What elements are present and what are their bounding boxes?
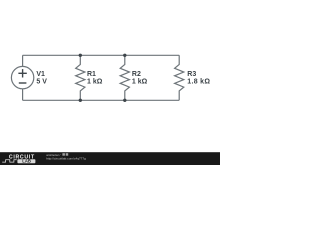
svg-text:V1: V1	[36, 71, 45, 78]
svg-text:http://circuitlab.com/c4q777g: http://circuitlab.com/c4q777g	[46, 157, 86, 161]
svg-text:R3: R3	[187, 71, 196, 78]
svg-text:R2: R2	[132, 71, 141, 78]
svg-text:1.8 kΩ: 1.8 kΩ	[187, 79, 210, 86]
svg-text:LAB: LAB	[22, 159, 31, 164]
svg-text:5 V: 5 V	[36, 79, 47, 86]
svg-text:1 kΩ: 1 kΩ	[87, 79, 103, 86]
svg-text:R1: R1	[87, 71, 96, 78]
svg-text:1 kΩ: 1 kΩ	[132, 79, 148, 86]
